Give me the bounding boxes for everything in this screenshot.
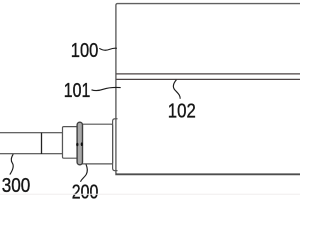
shaft rod 300 [0, 133, 63, 154]
leader 101 [92, 87, 121, 90]
rod joint line [41, 133, 43, 154]
faint artifact line [0, 193, 300, 195]
housing bottom edge [115, 173, 300, 175]
leader 100 [99, 48, 117, 50]
partition double line 102 [116, 78, 300, 80]
svg-text:101: 101 [64, 80, 91, 102]
leader 102 [173, 80, 180, 99]
mounting plate [113, 119, 118, 171]
flange pin left [76, 143, 78, 147]
leader 200 [81, 164, 88, 182]
svg-text:300: 300 [2, 175, 31, 197]
partition double line 101 [116, 73, 300, 75]
svg-text:100: 100 [71, 40, 99, 62]
svg-text:102: 102 [168, 101, 196, 123]
leader 300 [10, 154, 13, 174]
flange pin right [81, 142, 83, 146]
housing box 100 [116, 4, 304, 175]
svg-text:200: 200 [72, 181, 99, 200]
hub block [63, 127, 79, 159]
coupling block 200 [81, 124, 113, 164]
flange disc [77, 122, 82, 165]
